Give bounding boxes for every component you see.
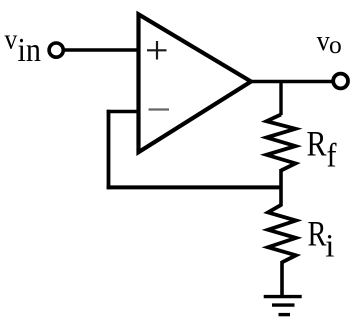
ground	[264, 297, 302, 315]
wire: - input horizontal	[107, 110, 140, 114]
resistor Ri	[268, 205, 296, 263]
wire: Rf to Ri junction	[279, 169, 283, 206]
svg-text:f: f	[327, 138, 338, 175]
output terminal (open circle)	[333, 74, 348, 89]
svg-text:v: v	[5, 24, 18, 55]
op-amp U1	[139, 14, 252, 152]
input terminal (open circle)	[49, 43, 63, 57]
svg-text:R: R	[307, 123, 327, 163]
svg-text:in: in	[18, 32, 42, 69]
node: output junction wire down to Rf	[279, 82, 282, 116]
wire: feedback horizontal bottom	[107, 185, 281, 189]
svg-text:o: o	[329, 30, 342, 59]
wire: op-amp output to terminal	[249, 80, 332, 83]
svg-text:R: R	[308, 213, 327, 253]
resistor Rf	[267, 115, 296, 171]
wire: input terminal to + input	[63, 48, 140, 51]
wire: Ri to ground	[280, 261, 284, 297]
wire: feedback vertical left	[107, 110, 111, 190]
op-amp plus input symbol	[147, 41, 167, 60]
op-amp minus input symbol	[149, 108, 170, 110]
svg-text:i: i	[325, 229, 334, 265]
